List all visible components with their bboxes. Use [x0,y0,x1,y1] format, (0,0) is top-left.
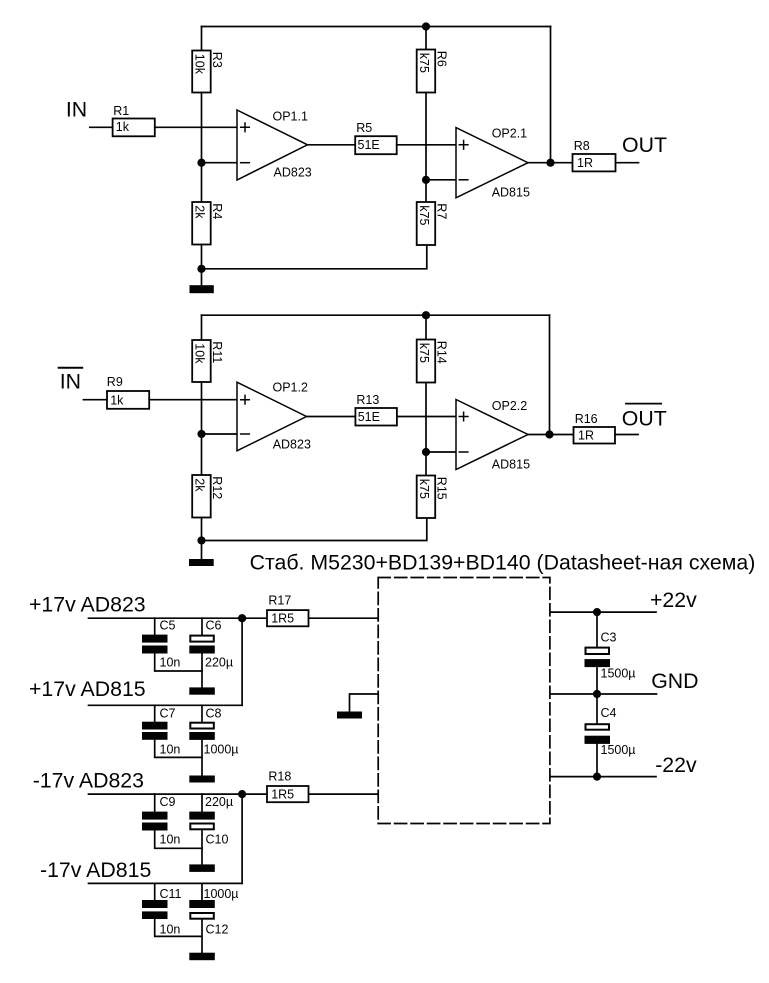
resistor R16 [574,427,616,444]
node rail1 junction [238,614,246,622]
node OP2.2 minus junction [422,448,430,456]
svg-text:R8: R8 [574,139,590,153]
svg-text:Стаб. M5230+BD139+BD140 (Datas: Стаб. M5230+BD139+BD140 (Datasheet-ная с… [250,551,756,575]
svg-text:AD823: AD823 [273,438,311,452]
op-amp OP2.1 [456,128,528,198]
svg-text:R6: R6 [434,51,448,67]
svg-text:R15: R15 [434,477,448,500]
wire top feedback ch2 [202,314,550,316]
wire feedback right ch2 [549,315,551,434]
svg-text:C6: C6 [206,618,222,632]
node feedback top junction ch2 [422,311,430,319]
wire minus to OP1.1 [202,162,238,164]
wire R17 to box [309,617,379,619]
svg-text:1500µ: 1500µ [601,743,636,757]
wire R5 to OP2.1 + [397,144,456,146]
capacitor C6 [201,618,203,634]
svg-text:-17v AD815: -17v AD815 [40,858,151,882]
resistor R14 [417,340,436,383]
wire column B ch1 [425,93,427,203]
wire column A ch2 [201,382,203,475]
node minus junction ch2 [197,430,205,438]
resistor R7 [417,202,436,245]
svg-text:R9: R9 [107,375,123,389]
svg-text:1R5: 1R5 [271,611,294,625]
wire OP1.2 out to R13 [307,416,356,418]
wire R8 out [616,162,639,164]
wire R4 bottom stub [201,245,203,269]
svg-text:1500µ: 1500µ [601,666,636,680]
wire minus to OP1.2 [202,433,238,435]
wire GND [551,693,657,695]
wire minus to OP2.1 [426,179,456,181]
svg-text:R14: R14 [434,341,448,364]
svg-text:-17v AD823: -17v AD823 [33,769,144,793]
svg-text:OP2.2: OP2.2 [492,399,527,413]
svg-text:10n: 10n [160,656,181,670]
capacitor C4 [596,694,598,723]
svg-text:IN: IN [60,369,81,393]
wire R6 top stub [425,27,427,50]
svg-text:-22v: -22v [655,753,697,777]
wire R16 out [615,434,638,436]
op-amp OP1.2 [237,382,307,451]
op-amp OP1.1 [237,110,308,180]
wire rail3 to rail4 [241,794,243,883]
svg-text:OP1.2: OP1.2 [273,381,308,395]
svg-text:R13: R13 [356,393,379,407]
svg-text:1000µ: 1000µ [204,887,239,901]
svg-text:220µ: 220µ [205,795,233,809]
svg-text:R1: R1 [113,104,129,118]
wire R12 bottom stub [201,518,203,541]
node minus junction ch1 [197,159,205,167]
capacitor C7 [154,705,156,721]
node output junction ch1 [546,159,554,167]
svg-text:IN: IN [66,98,87,122]
resistor R18 [267,786,309,802]
resistor R6 [417,50,436,93]
ground ch1 [201,269,203,285]
svg-text:220µ: 220µ [205,656,233,670]
svg-text:R12: R12 [210,476,224,499]
svg-text:+17v AD815: +17v AD815 [29,677,146,701]
ground C8 [189,776,215,783]
svg-text:R18: R18 [268,770,291,784]
svg-text:AD815: AD815 [492,458,530,472]
node OP2.1 minus junction [422,176,430,184]
svg-text:C4: C4 [601,706,617,720]
wire rail -17v AD823 [89,793,268,795]
wire column A ch1 [201,93,203,203]
wire R18 to box [309,793,379,795]
svg-text:OP1.1: OP1.1 [273,109,308,123]
svg-text:OP2.1: OP2.1 [492,126,527,140]
node feedback top junction ch1 [422,22,430,30]
svg-text:1k: 1k [110,394,124,408]
capacitor C11 [154,883,156,900]
node output junction ch2 [545,430,553,438]
svg-text:OUT: OUT [622,406,667,430]
capacitor C10 [201,794,203,812]
svg-text:R11: R11 [210,341,224,363]
ground C10 [189,864,215,872]
resistor R9 [107,391,149,409]
wire R3 top stub [201,27,203,51]
wire OP1.1 out to R5 [308,144,356,146]
resistor R8 [573,154,616,171]
svg-text:C9: C9 [160,795,176,809]
wire column B ch2 [425,383,427,476]
svg-text:C10: C10 [206,833,229,847]
svg-text:C12: C12 [206,923,229,937]
capacitor C5 [154,618,156,634]
svg-text:C5: C5 [160,618,176,632]
svg-text:R3: R3 [210,52,224,68]
svg-text:2k: 2k [192,205,206,219]
svg-text:C11: C11 [160,887,182,901]
resistor R4 [192,202,211,245]
svg-text:1R: 1R [578,429,594,443]
svg-text:51E: 51E [358,138,380,152]
svg-text:k75: k75 [417,343,431,363]
wire top feedback ch1 [202,26,551,28]
capacitor C9 [154,794,156,812]
wire OP2.2 out [528,434,574,436]
svg-text:k75: k75 [417,205,431,225]
svg-text:10n: 10n [160,833,181,847]
resistor R17 [267,610,309,626]
resistor R3 [192,51,211,93]
regulator box (dashed) [378,578,550,824]
svg-text:1000µ: 1000µ [204,743,239,757]
svg-text:R7: R7 [434,203,448,219]
svg-text:R5: R5 [356,121,372,135]
svg-text:R16: R16 [575,412,598,426]
resistor R1 [113,119,155,137]
wire R11 top stub [201,315,203,340]
svg-text:k75: k75 [417,53,431,73]
wire minus to OP2.2 [426,451,456,453]
wire R9 to OP1.2 + [149,399,237,401]
resistor R11 [192,340,211,382]
svg-text:+22v: +22v [650,588,697,612]
svg-text:10n: 10n [160,743,181,757]
resistor R15 [417,476,436,519]
wire rail -17v AD815 [89,882,243,884]
ground C6 [189,687,215,694]
wire feedback right ch1 [550,27,552,163]
svg-text:1R5: 1R5 [271,787,294,801]
capacitor C8 [201,705,203,721]
svg-text:10n: 10n [160,923,181,937]
svg-text:k75: k75 [417,479,431,499]
svg-text:OUT: OUT [622,133,667,157]
capacitor C3 [596,612,598,647]
svg-text:+17v AD823: +17v AD823 [29,593,146,617]
wire -22v [551,776,657,778]
resistor R5 [355,136,397,154]
svg-text:2k: 2k [192,478,206,492]
svg-text:C7: C7 [160,707,176,721]
wire rail1 to rail2 [241,618,243,705]
wire R1 to OP1.1 + [155,126,237,128]
resistor R13 [355,408,397,426]
svg-text:AD815: AD815 [492,186,530,200]
wire R14 top stub [425,315,427,339]
svg-text:10k: 10k [192,343,206,364]
wire bottom ch1 [202,245,427,269]
ground ch2 [201,541,203,560]
wire rail +17v AD823 [89,617,268,619]
wire OP2.1 out [528,162,573,164]
wire rail +17v AD815 [89,704,243,706]
ground C12 [189,953,215,961]
svg-text:R17: R17 [268,594,291,608]
node ground junction ch1 [197,265,205,273]
wire R13 to OP2.2 + [397,416,456,418]
capacitor C12 [201,883,203,900]
svg-text:GND: GND [651,669,698,693]
wire IN input [90,126,113,128]
node rail3 junction [238,790,246,798]
svg-text:AD823: AD823 [274,166,312,180]
wire +22v [551,611,657,613]
resistor R12 [192,475,211,518]
svg-text:C3: C3 [601,630,617,644]
svg-text:C8: C8 [206,707,222,721]
svg-text:R4: R4 [210,203,224,219]
svg-text:1R: 1R [577,156,593,170]
wire IN-bar input [83,399,107,401]
node ground junction ch2 [197,536,205,544]
wire bottom ch2 [202,518,427,541]
svg-text:51E: 51E [358,410,380,424]
ground regulator [350,694,379,712]
svg-text:1k: 1k [116,120,130,134]
op-amp OP2.2 [456,400,528,470]
svg-text:10k: 10k [192,54,206,75]
